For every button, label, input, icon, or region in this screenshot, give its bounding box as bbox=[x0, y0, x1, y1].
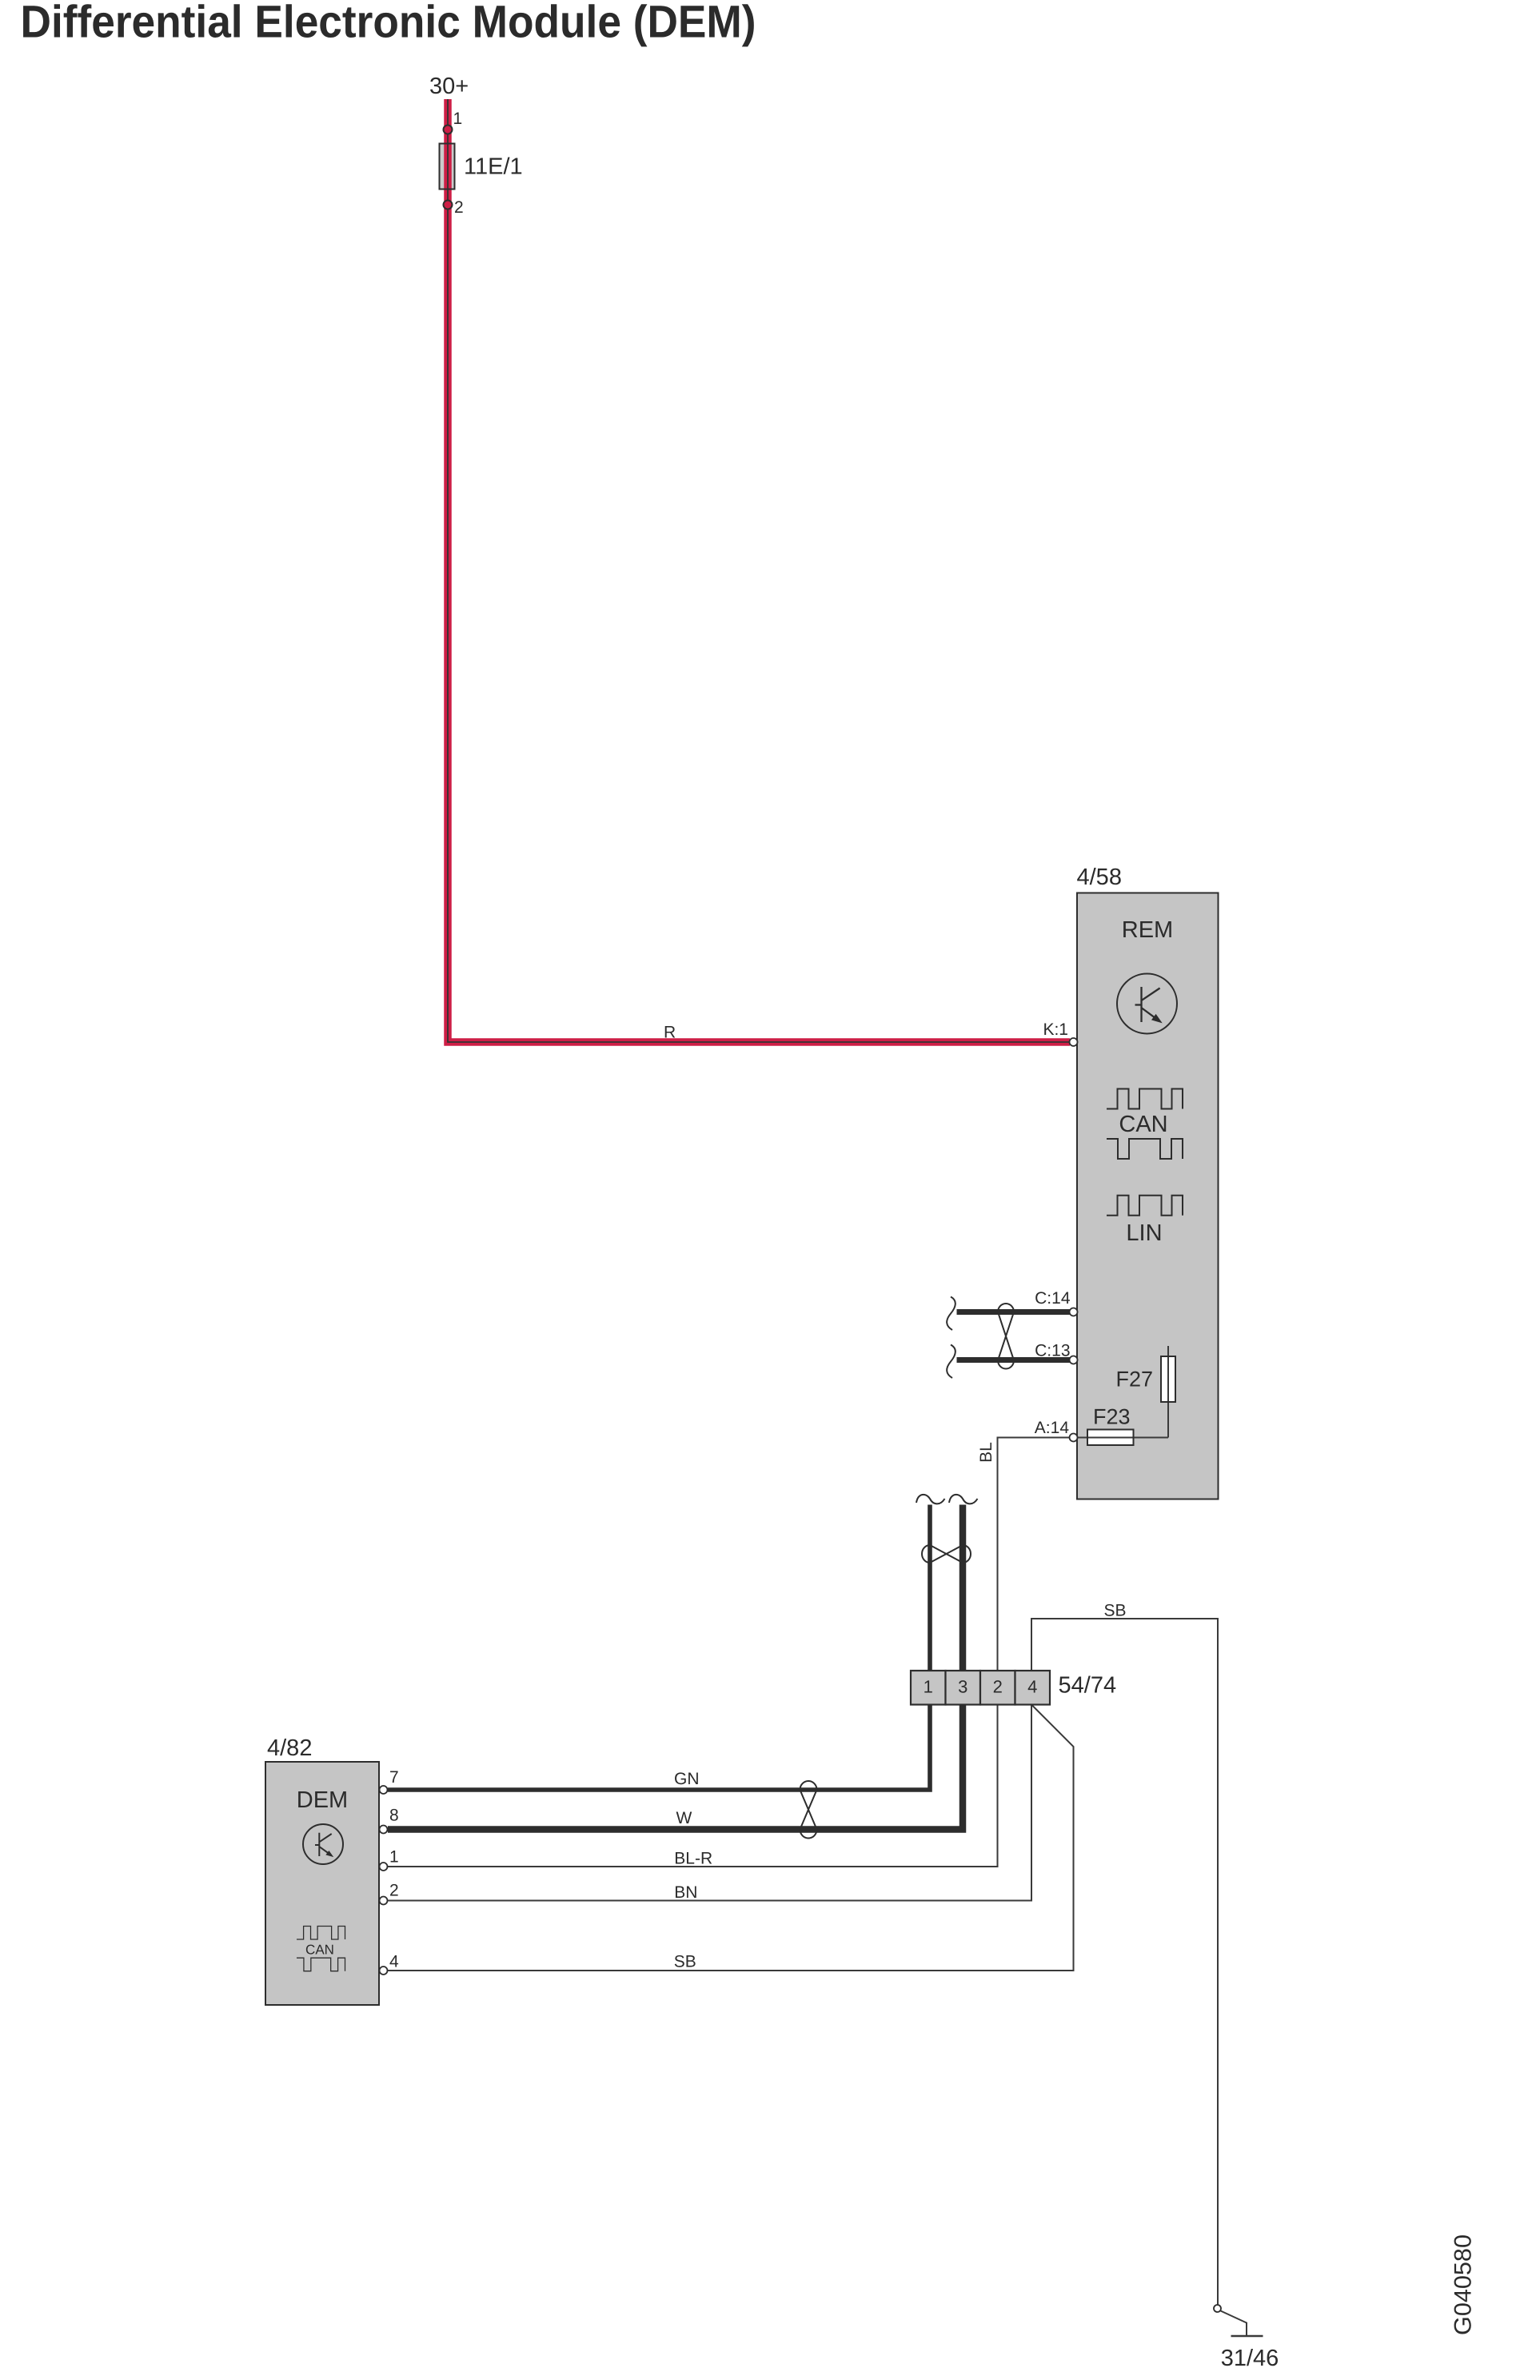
svg-text:BN: BN bbox=[674, 1883, 697, 1902]
svg-text:11E/1: 11E/1 bbox=[464, 154, 523, 180]
wire break squiggle (GN wire top) bbox=[916, 1495, 945, 1504]
svg-text:A:14: A:14 bbox=[1035, 1419, 1070, 1437]
wire break squiggle (C:14 wire) bbox=[947, 1297, 956, 1331]
ECU transistor symbol (REM) bbox=[1117, 974, 1177, 1034]
twisted pair symbol (C:14/C:13 wires) bbox=[998, 1304, 1014, 1369]
node 1 (fuse 11E/1 pin 1) bbox=[444, 126, 453, 134]
svg-text:1: 1 bbox=[924, 1677, 933, 1697]
svg-text:BL-R: BL-R bbox=[674, 1850, 712, 1868]
terminal REM A:14 bbox=[1070, 1434, 1078, 1442]
wire C:13 (CAN to REM C:13) bbox=[957, 1357, 1071, 1363]
svg-text:4: 4 bbox=[1027, 1677, 1037, 1697]
terminal DEM pin 4 bbox=[380, 1967, 388, 1975]
terminal DEM pin 7 bbox=[380, 1786, 388, 1794]
svg-text:8: 8 bbox=[389, 1807, 399, 1825]
svg-text:CAN: CAN bbox=[305, 1943, 334, 1958]
wire F27 lead (inside REM) bbox=[1167, 1346, 1169, 1438]
LIN symbol (REM) bbox=[1107, 1196, 1183, 1216]
svg-text:31/46: 31/46 bbox=[1221, 2346, 1279, 2371]
svg-text:4/58: 4/58 bbox=[1077, 865, 1122, 890]
ECU REM 4/58 box bbox=[1077, 893, 1219, 1499]
svg-text:F23: F23 bbox=[1093, 1405, 1131, 1429]
svg-text:3: 3 bbox=[958, 1677, 967, 1697]
svg-text:LIN: LIN bbox=[1126, 1220, 1162, 1246]
svg-text:4/82: 4/82 bbox=[267, 1735, 312, 1761]
svg-text:54/74: 54/74 bbox=[1059, 1673, 1117, 1699]
wire GN (CAN, connector 54/74 pin 1 to DEM pin 7) bbox=[388, 1505, 930, 1791]
ground lead 31/46 bbox=[1221, 2311, 1247, 2336]
wire BN (connector 54/74 pin 4 to DEM pin 2) bbox=[388, 1705, 1031, 1901]
svg-text:SB: SB bbox=[674, 1953, 696, 1971]
ground terminal 31/46 bbox=[1214, 2305, 1221, 2312]
svg-text:SB: SB bbox=[1104, 1602, 1127, 1620]
terminal REM C:13 bbox=[1070, 1356, 1078, 1364]
wire break squiggle (C:13 wire) bbox=[947, 1345, 956, 1379]
fuse F23 bbox=[1087, 1430, 1134, 1446]
CAN symbol (REM) bbox=[1107, 1089, 1183, 1109]
svg-text:REM: REM bbox=[1122, 917, 1173, 943]
svg-text:30+: 30+ bbox=[429, 74, 469, 99]
CAN symbol (DEM) bbox=[297, 1927, 345, 1940]
svg-text:G040580: G040580 bbox=[1450, 2234, 1477, 2335]
twisted pair symbol (GN/W vertical run) bbox=[922, 1545, 971, 1563]
wire W (CAN, connector 54/74 pin 3 to DEM pin 8) bbox=[388, 1505, 963, 1830]
svg-text:Differential Electronic Module: Differential Electronic Module (DEM) bbox=[21, 0, 756, 48]
wire C:14 (CAN to REM C:14) bbox=[957, 1309, 1071, 1315]
svg-text:BL: BL bbox=[977, 1442, 995, 1463]
wire BL / BL-R (REM A:14 via connector 54/74 pin 2 to DEM pin 1) bbox=[388, 1438, 1070, 1867]
svg-text:K:1: K:1 bbox=[1043, 1020, 1068, 1039]
svg-text:C:13: C:13 bbox=[1035, 1342, 1070, 1360]
wire R (30+ feed, red, to REM K:1) bbox=[448, 99, 1070, 1042]
svg-text:7: 7 bbox=[389, 1768, 399, 1787]
twisted pair symbol (GN/W horizontal run) bbox=[800, 1781, 817, 1839]
fuse F27 bbox=[1161, 1356, 1175, 1402]
node 2 (fuse 11E/1 pin 2) bbox=[444, 201, 453, 210]
wire SB (connector 54/74 pin 4 to ground 31/46) bbox=[1031, 1619, 1218, 2305]
terminal REM K:1 bbox=[1070, 1038, 1078, 1046]
terminal DEM pin 2 bbox=[380, 1897, 388, 1905]
svg-text:1: 1 bbox=[389, 1847, 399, 1866]
svg-text:2: 2 bbox=[389, 1882, 399, 1900]
svg-text:4: 4 bbox=[389, 1953, 399, 1971]
ground symbol 31/46 bbox=[1231, 2335, 1263, 2338]
svg-text:CAN: CAN bbox=[1119, 1112, 1167, 1137]
terminal DEM pin 8 bbox=[380, 1826, 388, 1834]
terminal DEM pin 1 bbox=[380, 1863, 388, 1871]
svg-text:2: 2 bbox=[454, 198, 464, 217]
connector 54/74 housing bbox=[911, 1671, 1050, 1705]
wire A:14 to F23/F27 (inside REM) bbox=[1070, 1437, 1169, 1439]
svg-text:F27: F27 bbox=[1115, 1368, 1153, 1392]
fuse 11E/1 border bbox=[440, 144, 455, 190]
fuse 11E/1 body bbox=[440, 144, 455, 190]
svg-text:W: W bbox=[676, 1809, 692, 1827]
svg-text:C:14: C:14 bbox=[1035, 1289, 1071, 1308]
svg-text:GN: GN bbox=[674, 1770, 700, 1788]
svg-text:R: R bbox=[664, 1024, 676, 1042]
wire SB (connector 54/74 pin 4 to DEM pin 4) bbox=[388, 1705, 1074, 1971]
terminal REM C:14 bbox=[1070, 1308, 1078, 1316]
svg-text:DEM: DEM bbox=[297, 1787, 348, 1813]
svg-text:2: 2 bbox=[993, 1677, 1003, 1697]
ECU transistor symbol (DEM) bbox=[303, 1824, 343, 1864]
svg-text:1: 1 bbox=[453, 110, 463, 128]
wire break squiggle (W wire top) bbox=[949, 1495, 978, 1504]
ECU DEM 4/82 box bbox=[265, 1762, 379, 2005]
